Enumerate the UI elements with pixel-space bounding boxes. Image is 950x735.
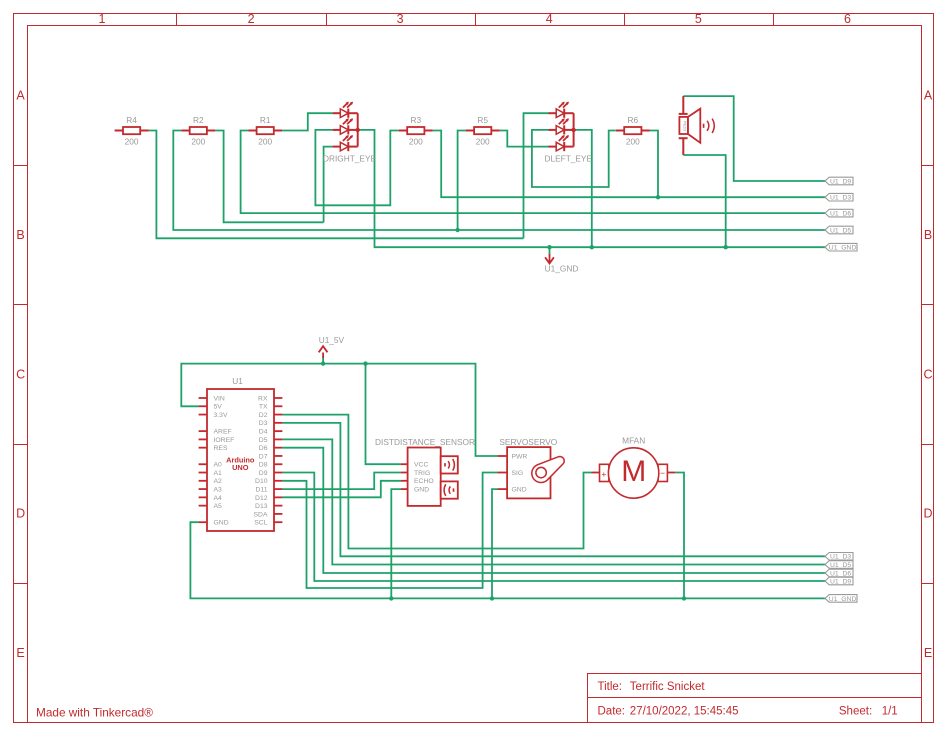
svg-text:5: 5 (695, 12, 702, 26)
svg-text:200: 200 (476, 137, 490, 147)
svg-text:200: 200 (191, 137, 205, 147)
svg-text:200: 200 (409, 137, 423, 147)
svg-text:D2: D2 (259, 412, 268, 419)
svg-text:Sheet:: Sheet: (839, 706, 872, 718)
svg-text:B: B (924, 228, 932, 242)
svg-text:D9: D9 (259, 470, 268, 477)
svg-text:TRIG: TRIG (414, 470, 430, 477)
svg-text:RX: RX (258, 395, 268, 402)
svg-text:3.3V: 3.3V (214, 412, 228, 419)
svg-text:GND: GND (214, 520, 229, 527)
svg-text:PIEZO: PIEZO (683, 121, 687, 132)
svg-text:E: E (924, 646, 932, 660)
svg-text:E: E (16, 646, 24, 660)
svg-text:DLEFT_EYE: DLEFT_EYE (545, 153, 593, 163)
svg-text:U1_D3: U1_D3 (830, 554, 851, 561)
svg-text:D4: D4 (259, 429, 268, 436)
svg-text:GND: GND (512, 487, 527, 494)
svg-text:3: 3 (397, 12, 404, 26)
svg-text:2: 2 (248, 12, 255, 26)
svg-text:D6: D6 (259, 445, 268, 452)
svg-text:A5: A5 (214, 503, 223, 510)
svg-text:U1_GND: U1_GND (829, 596, 857, 603)
svg-text:Title:: Title: (598, 681, 623, 693)
svg-text:U1_GND: U1_GND (545, 264, 579, 274)
svg-text:MFAN: MFAN (622, 435, 645, 445)
svg-text:B: B (16, 228, 24, 242)
svg-text:U1_D9: U1_D9 (830, 578, 851, 585)
svg-text:UNO: UNO (232, 463, 249, 472)
svg-text:+: + (601, 469, 606, 479)
svg-text:5V: 5V (214, 404, 223, 411)
svg-text:SERVOSERVO: SERVOSERVO (499, 437, 557, 447)
svg-text:U1_D9: U1_D9 (830, 178, 851, 185)
svg-text:SDA: SDA (254, 511, 268, 518)
svg-text:VCC: VCC (414, 462, 428, 469)
svg-text:ECHO: ECHO (414, 478, 434, 485)
svg-text:C: C (16, 367, 25, 381)
svg-text:D7: D7 (259, 453, 268, 460)
svg-text:R2: R2 (193, 115, 204, 125)
svg-text:Terrific Snicket: Terrific Snicket (630, 681, 706, 693)
svg-text:D10: D10 (255, 478, 268, 485)
svg-text:6: 6 (844, 12, 851, 26)
svg-text:D13: D13 (255, 503, 268, 510)
svg-text:Made with Tinkercad®: Made with Tinkercad® (36, 706, 153, 720)
svg-text:R4: R4 (126, 115, 137, 125)
svg-text:U1_D6: U1_D6 (830, 211, 851, 218)
svg-text:U1_D6: U1_D6 (830, 570, 851, 577)
svg-text:27/10/2022, 15:45:45: 27/10/2022, 15:45:45 (630, 706, 739, 718)
svg-text:A1: A1 (214, 470, 223, 477)
svg-text:D11: D11 (256, 486, 268, 493)
svg-text:PWR: PWR (512, 453, 528, 460)
svg-text:A: A (924, 89, 933, 103)
svg-text:A0: A0 (214, 462, 223, 469)
svg-text:A4: A4 (214, 495, 223, 502)
svg-text:D8: D8 (259, 462, 268, 469)
svg-text:AREF: AREF (214, 429, 232, 436)
svg-text:SIG: SIG (512, 470, 524, 477)
svg-text:Date:: Date: (598, 706, 626, 718)
svg-text:IOREF: IOREF (214, 437, 235, 444)
svg-text:DISTDISTANCE_SENSOR: DISTDISTANCE_SENSOR (375, 437, 475, 447)
svg-text:RES: RES (214, 445, 228, 452)
svg-text:D: D (923, 507, 932, 521)
svg-text:D12: D12 (255, 495, 268, 502)
svg-text:U1_D5: U1_D5 (830, 227, 851, 234)
svg-text:4: 4 (546, 12, 553, 26)
svg-text:200: 200 (626, 137, 640, 147)
svg-text:C: C (923, 367, 932, 381)
svg-text:DRIGHT_EYE: DRIGHT_EYE (323, 153, 376, 163)
svg-text:1: 1 (98, 12, 105, 26)
svg-text:D5: D5 (259, 437, 268, 444)
svg-text:TX: TX (259, 404, 268, 411)
svg-text:1/1: 1/1 (882, 706, 898, 718)
svg-text:D: D (16, 507, 25, 521)
svg-text:D3: D3 (259, 420, 268, 427)
svg-text:M: M (621, 455, 646, 488)
svg-text:200: 200 (125, 137, 139, 147)
svg-text:VIN: VIN (214, 395, 225, 402)
svg-text:U1_D3: U1_D3 (830, 195, 851, 202)
svg-text:U1_D5: U1_D5 (830, 562, 851, 569)
svg-text:R3: R3 (410, 115, 421, 125)
svg-text:U1_GND: U1_GND (829, 245, 857, 252)
svg-text:A: A (16, 89, 25, 103)
svg-text:R6: R6 (627, 115, 638, 125)
svg-text:GND: GND (414, 487, 429, 494)
svg-text:−: − (660, 468, 665, 478)
svg-text:200: 200 (258, 137, 272, 147)
svg-text:A3: A3 (214, 486, 223, 493)
svg-text:U1: U1 (232, 376, 243, 386)
svg-text:R1: R1 (260, 115, 271, 125)
svg-text:R5: R5 (477, 115, 488, 125)
svg-text:U1_5V: U1_5V (319, 335, 345, 345)
svg-text:A2: A2 (214, 478, 223, 485)
svg-text:SCL: SCL (254, 520, 267, 527)
